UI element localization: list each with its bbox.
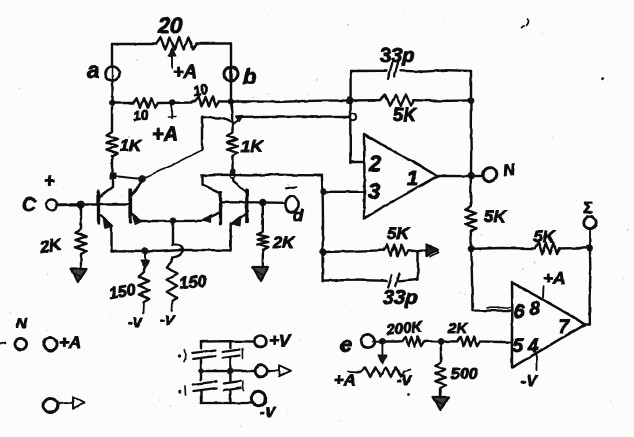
svg-text:33p: 33p (380, 45, 414, 67)
svg-text:2K: 2K (447, 320, 468, 337)
svg-text:+: + (44, 171, 55, 192)
svg-text:8: 8 (530, 299, 541, 320)
svg-text:-V: -V (128, 314, 144, 330)
svg-text:-V: -V (397, 372, 413, 388)
svg-text:6: 6 (514, 302, 525, 323)
svg-text:d: d (293, 206, 304, 225)
svg-text:20: 20 (157, 13, 183, 38)
svg-text:a: a (87, 58, 99, 83)
svg-text:1K: 1K (120, 137, 142, 155)
svg-text:5K: 5K (533, 227, 556, 246)
svg-text:1K: 1K (241, 137, 264, 156)
svg-text:+A: +A (152, 124, 178, 146)
svg-text:5: 5 (513, 336, 524, 357)
svg-text:-V: -V (260, 404, 277, 421)
svg-text:Σ: Σ (583, 200, 593, 217)
svg-text:-V: -V (160, 312, 176, 328)
svg-text:N: N (16, 315, 28, 332)
svg-text:+A: +A (334, 371, 356, 390)
svg-text:5K: 5K (393, 105, 418, 125)
svg-text:-V: -V (521, 373, 538, 390)
svg-text:2: 2 (368, 151, 382, 176)
svg-text:5K: 5K (387, 224, 410, 243)
svg-text:5K: 5K (484, 207, 507, 226)
svg-text:3: 3 (368, 179, 380, 204)
svg-text:b: b (243, 64, 256, 89)
svg-text:1: 1 (407, 168, 418, 190)
svg-text:150: 150 (179, 272, 209, 293)
svg-text:+A: +A (59, 333, 81, 352)
svg-text:33p: 33p (383, 287, 417, 309)
svg-text:+A: +A (543, 269, 565, 288)
svg-text:10: 10 (132, 107, 149, 124)
svg-text:e: e (340, 332, 352, 357)
svg-text:C: C (22, 195, 36, 216)
svg-text:2K: 2K (272, 234, 295, 252)
svg-text:+V: +V (269, 331, 292, 350)
svg-text:+A: +A (173, 62, 197, 82)
svg-text:7: 7 (559, 317, 571, 338)
svg-text:500: 500 (451, 366, 478, 383)
